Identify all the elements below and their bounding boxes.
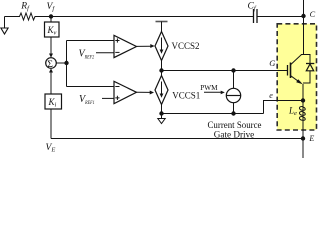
wire arrow Kv to summer xyxy=(50,37,52,54)
wire emitter vertical xyxy=(302,84,304,139)
inductor Le coil xyxy=(299,107,305,121)
svg-text:VE: VE xyxy=(46,143,56,154)
svg-text:Gate Drive: Gate Drive xyxy=(214,130,255,140)
wire PWM source top xyxy=(233,71,235,89)
resistor R1 (Rf) xyxy=(18,13,37,20)
node dot PWM bottom xyxy=(231,111,235,115)
capacitor C1 (Cf) plates xyxy=(253,9,255,23)
wire arrow Ki to summer xyxy=(50,72,52,94)
svg-text:VCCS1: VCCS1 xyxy=(172,91,200,101)
wire top rail from resistor to capacitor xyxy=(37,16,254,18)
VCCS1 inner arrow xyxy=(161,82,163,95)
wire Vf to Kv box xyxy=(50,17,52,23)
svg-text:Vf: Vf xyxy=(47,2,56,13)
svg-text:G: G xyxy=(269,58,275,68)
ground arrow below VCCS1 xyxy=(161,114,163,119)
op-amp U1 plus sign xyxy=(115,38,119,42)
wire top rail from capacitor to node C xyxy=(257,16,304,18)
wire to op-amp U2 - input xyxy=(67,86,115,88)
svg-text:VREF1: VREF1 xyxy=(79,94,95,106)
node junction dot gate line xyxy=(159,68,163,72)
wire top rail left segment xyxy=(5,16,19,18)
wire supply bar to VCCS2 xyxy=(161,22,163,32)
svg-text:Rf: Rf xyxy=(20,2,30,13)
op-amp U2 plus sign xyxy=(115,96,119,100)
wire gate line xyxy=(162,70,288,72)
svg-text:C: C xyxy=(310,10,316,19)
wire PWM source bottom xyxy=(233,103,235,114)
wire VREF2 to op-amp U1 - input xyxy=(96,52,114,54)
svg-text:Ki: Ki xyxy=(48,97,57,109)
op-amp U2 minus sign xyxy=(115,86,119,88)
wire collector jog bar xyxy=(301,54,311,56)
IGBT Q1 collector diagonal xyxy=(291,55,302,65)
wire Ki down to VE rail xyxy=(50,109,52,139)
current source PWM circle xyxy=(226,88,240,102)
highlight box (yellow dashed region around IGBT) xyxy=(277,24,316,130)
node dot E xyxy=(301,136,305,140)
svg-text:Cf: Cf xyxy=(248,2,257,13)
IGBT Q1 gate bar xyxy=(287,65,289,76)
VCCS2 inner arrow xyxy=(161,38,163,51)
node dot PWM top xyxy=(231,68,235,72)
op-amp U1 xyxy=(114,35,137,57)
wire Le to E node xyxy=(302,125,304,159)
svg-text:PWM: PWM xyxy=(200,83,218,92)
wire op-amp U2 output arrow to VCCS1 xyxy=(137,91,151,93)
block Kv xyxy=(45,22,60,37)
current source VCCS1 diamond xyxy=(155,76,168,105)
op-amp U2 xyxy=(114,81,137,103)
svg-text:Kv: Kv xyxy=(47,25,57,37)
current source VCCS2 diamond xyxy=(155,32,168,61)
wire summer output to junction xyxy=(56,62,67,64)
wire VREF1 to op-amp U2 + input xyxy=(102,97,114,99)
wire VCCS2 to junction xyxy=(161,61,163,76)
PWM circle chord xyxy=(226,95,240,97)
supply bar above VCCS2 xyxy=(156,21,168,23)
wire bottom rail VE xyxy=(51,138,303,140)
node junction dot right of summer xyxy=(64,61,68,65)
wire to op-amp U1 + input xyxy=(67,40,115,42)
block Ki xyxy=(45,94,62,109)
wire main rail top (collector) xyxy=(303,0,305,55)
summer (sigma) circle xyxy=(46,58,57,69)
wire junction vertical xyxy=(66,41,68,87)
wire PWM label arrow xyxy=(204,91,221,93)
node dot e xyxy=(301,98,305,102)
svg-text:VREF2: VREF2 xyxy=(79,49,95,61)
svg-text:VCCS2: VCCS2 xyxy=(172,41,200,51)
node dot VCCS1 bottom xyxy=(159,111,163,115)
svg-text:Σ: Σ xyxy=(47,59,53,70)
svg-text:E: E xyxy=(308,134,314,143)
IGBT Q1 emitter diagonal with arrow xyxy=(291,76,300,83)
wire corner up to e level xyxy=(264,101,304,114)
wire op-amp U1 output arrow to VCCS2 xyxy=(137,45,151,47)
node dot C xyxy=(301,14,305,18)
ground arrow left (pull-down arrow) xyxy=(4,17,6,29)
op-amp U1 minus sign xyxy=(115,51,119,53)
wire VCCS1 bottom to lower line xyxy=(161,105,163,114)
diode D1 antiparallel xyxy=(309,55,311,64)
wire lower line VCCS1 to corner xyxy=(162,113,264,115)
svg-text:e: e xyxy=(269,91,273,100)
node Vf junction dot xyxy=(49,14,53,18)
IGBT Q1 body bar xyxy=(290,63,292,79)
